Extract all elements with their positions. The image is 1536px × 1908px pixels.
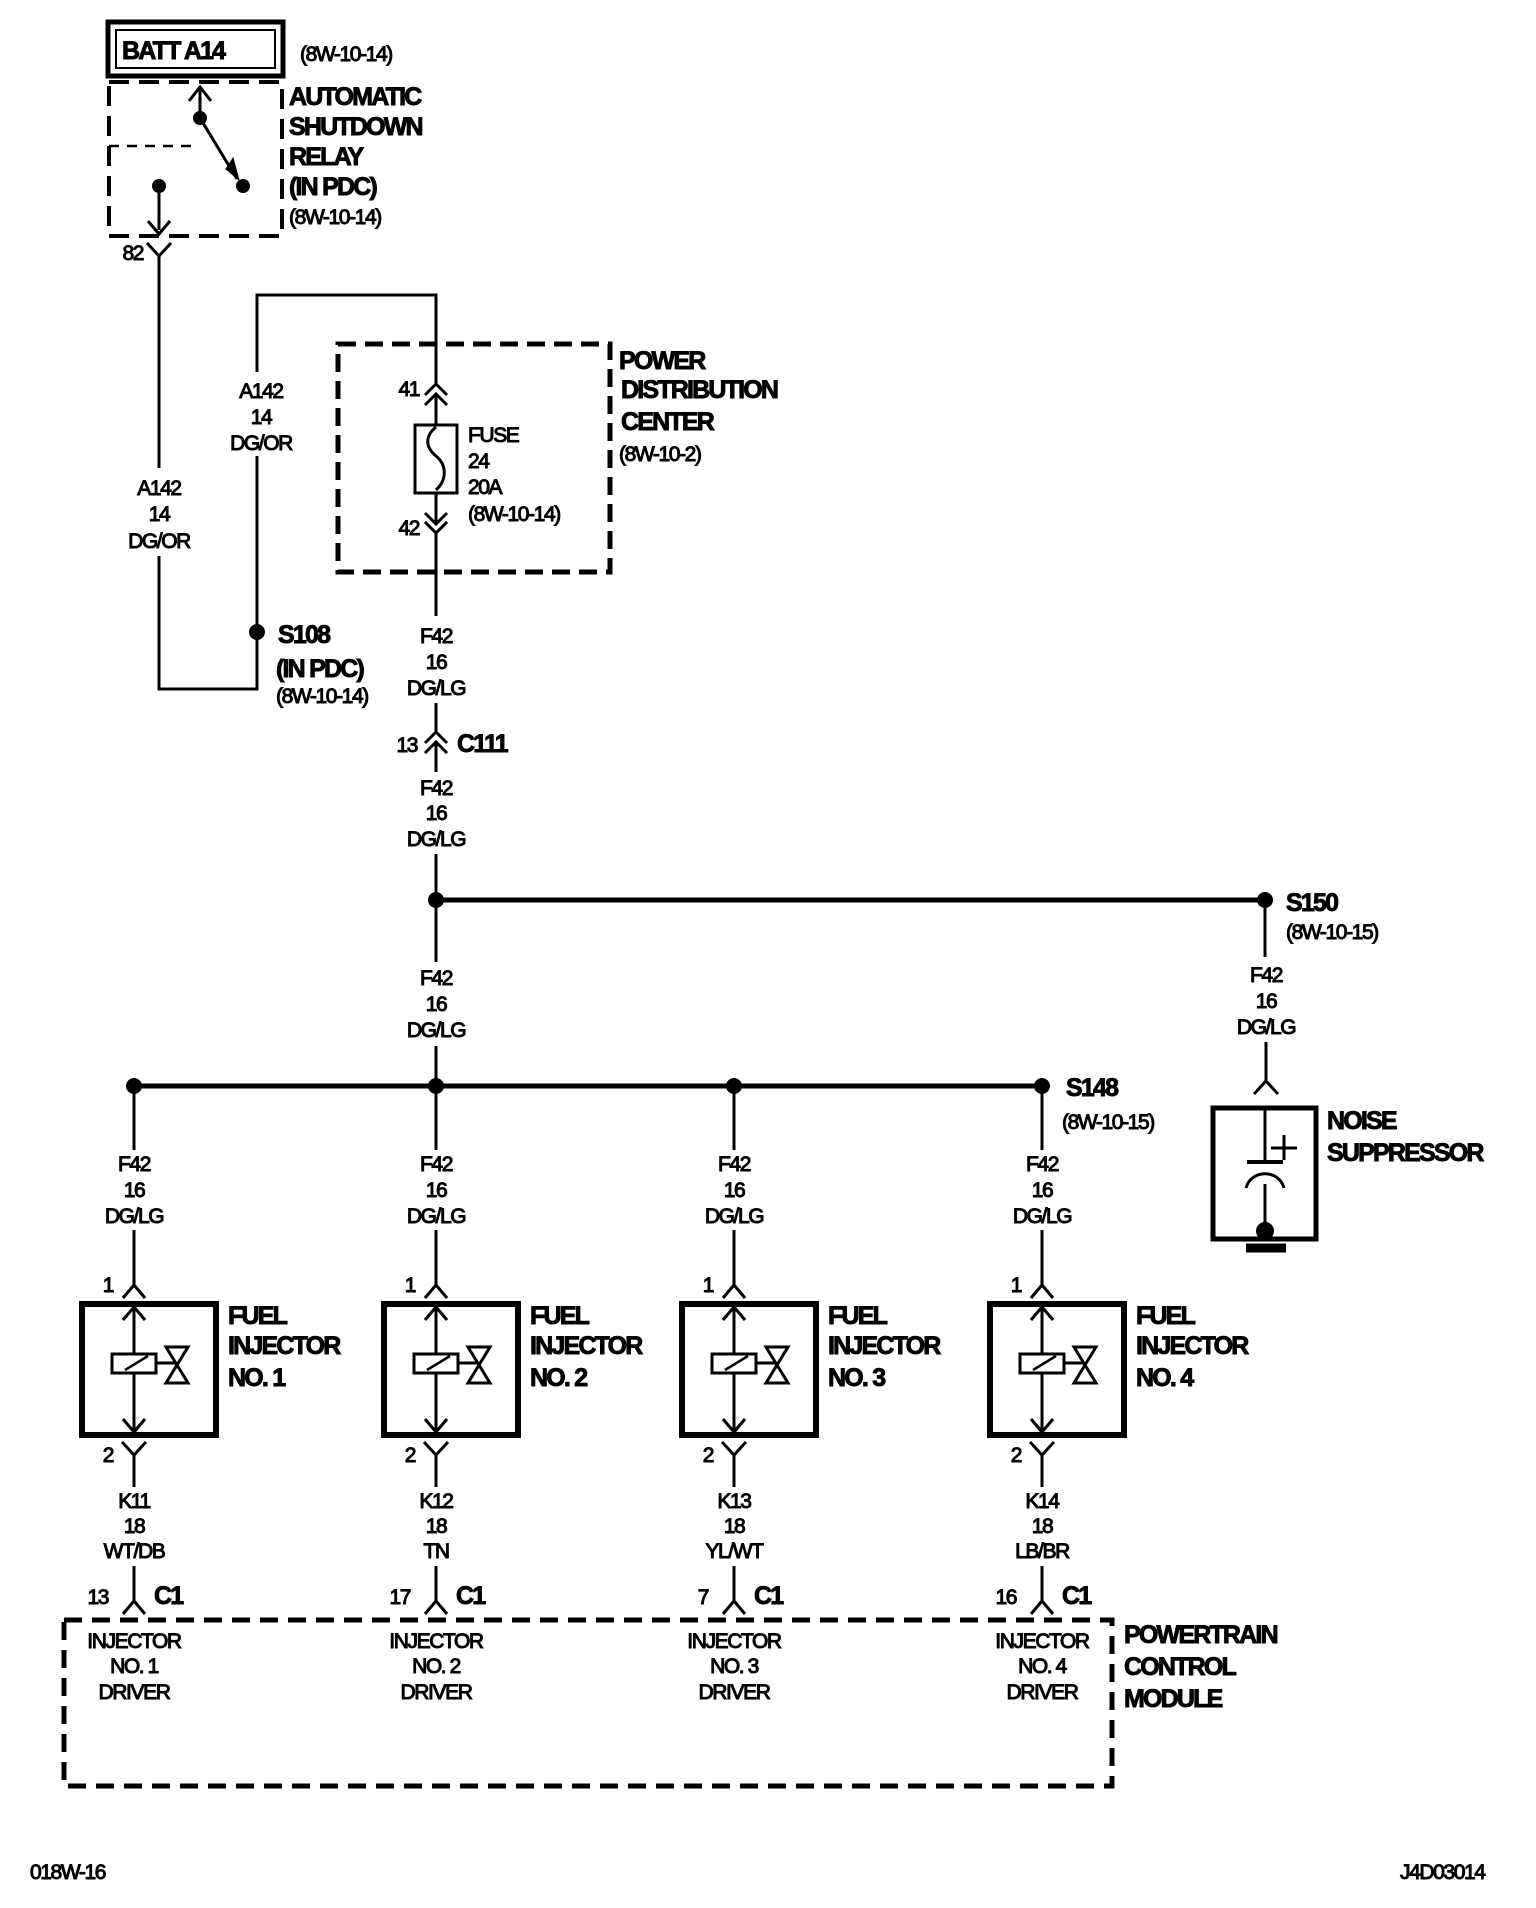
svg-text:DG/LG: DG/LG [1237,1016,1295,1039]
svg-text:1: 1 [703,1274,714,1297]
svg-text:INJECTOR: INJECTOR [828,1332,941,1360]
svg-text:C1: C1 [1062,1582,1092,1610]
svg-text:2: 2 [405,1444,416,1467]
svg-text:S148: S148 [1066,1074,1119,1102]
svg-text:NOISE: NOISE [1327,1107,1397,1135]
svg-text:2: 2 [1011,1444,1022,1467]
svg-text:2: 2 [703,1444,714,1467]
svg-text:DRIVER: DRIVER [99,1681,171,1704]
svg-text:NO. 4: NO. 4 [1018,1655,1068,1678]
svg-text:24: 24 [468,450,490,473]
svg-text:TN: TN [423,1540,448,1563]
svg-text:NO. 3: NO. 3 [828,1364,885,1392]
svg-text:DG/LG: DG/LG [407,828,465,851]
svg-text:(IN PDC): (IN PDC) [289,173,377,201]
svg-text:DG/LG: DG/LG [407,1205,465,1228]
svg-text:CONTROL: CONTROL [1124,1653,1237,1681]
svg-text:F42: F42 [118,1153,151,1176]
svg-text:16: 16 [426,802,447,825]
svg-text:NO. 2: NO. 2 [530,1364,587,1392]
svg-text:A142: A142 [239,380,283,403]
svg-text:YL/WT: YL/WT [705,1540,764,1563]
svg-text:INJECTOR: INJECTOR [228,1332,341,1360]
svg-text:INJECTOR: INJECTOR [389,1630,484,1653]
svg-text:018W-16: 018W-16 [30,1861,106,1884]
svg-text:41: 41 [398,378,419,401]
svg-text:F42: F42 [420,777,453,800]
svg-text:FUSE: FUSE [468,424,520,447]
svg-text:2: 2 [103,1444,114,1467]
svg-text:DG/LG: DG/LG [1013,1205,1071,1228]
svg-text:DG/LG: DG/LG [105,1205,163,1228]
svg-text:13: 13 [87,1586,108,1609]
svg-text:SHUTDOWN: SHUTDOWN [289,113,423,141]
svg-text:16: 16 [426,1179,447,1202]
svg-text:DRIVER: DRIVER [1007,1681,1079,1704]
svg-text:16: 16 [1032,1179,1053,1202]
svg-text:FUEL: FUEL [828,1302,888,1330]
svg-text:NO. 3: NO. 3 [710,1655,759,1678]
svg-text:C1: C1 [154,1582,184,1610]
svg-text:INJECTOR: INJECTOR [530,1332,643,1360]
svg-text:DG/LG: DG/LG [407,677,465,700]
svg-text:1: 1 [405,1274,416,1297]
svg-text:BATT A14: BATT A14 [122,37,226,65]
svg-text:F42: F42 [420,1153,453,1176]
svg-text:K13: K13 [717,1490,751,1513]
svg-text:F42: F42 [420,625,453,648]
svg-text:14: 14 [149,503,171,526]
svg-text:C1: C1 [754,1582,784,1610]
svg-text:NO. 1: NO. 1 [228,1364,286,1392]
svg-text:16: 16 [995,1586,1016,1609]
svg-text:A142: A142 [137,477,181,500]
svg-text:NO. 2: NO. 2 [412,1655,461,1678]
svg-text:7: 7 [698,1586,709,1609]
svg-text:INJECTOR: INJECTOR [87,1630,182,1653]
svg-text:DG/LG: DG/LG [407,1019,465,1042]
svg-text:SUPPRESSOR: SUPPRESSOR [1327,1139,1484,1167]
svg-text:NO. 4: NO. 4 [1136,1364,1194,1392]
svg-text:18: 18 [426,1515,447,1538]
svg-text:J4D03014: J4D03014 [1400,1861,1486,1884]
svg-text:18: 18 [1032,1515,1053,1538]
svg-text:NO. 1: NO. 1 [110,1655,159,1678]
svg-text:POWERTRAIN: POWERTRAIN [1124,1621,1278,1649]
svg-text:17: 17 [389,1586,410,1609]
svg-text:AUTOMATIC: AUTOMATIC [289,83,422,111]
svg-text:FUEL: FUEL [530,1302,590,1330]
svg-text:16: 16 [426,993,447,1016]
svg-text:C1: C1 [456,1582,486,1610]
svg-text:F42: F42 [1026,1153,1059,1176]
svg-text:WT/DB: WT/DB [104,1540,165,1563]
svg-text:RELAY: RELAY [289,143,365,171]
svg-text:F42: F42 [718,1153,751,1176]
svg-text:K11: K11 [118,1490,150,1513]
svg-text:20A: 20A [468,476,503,499]
svg-text:DG/LG: DG/LG [705,1205,763,1228]
svg-text:DISTRIBUTION: DISTRIBUTION [621,376,778,404]
svg-text:INJECTOR: INJECTOR [995,1630,1090,1653]
svg-text:16: 16 [124,1179,145,1202]
svg-text:CENTER: CENTER [621,408,715,436]
svg-text:13: 13 [396,734,417,757]
svg-text:DG/OR: DG/OR [128,530,191,553]
svg-text:S150: S150 [1286,889,1338,917]
svg-text:(8W-10-15): (8W-10-15) [1286,921,1378,944]
svg-text:(8W-10-15): (8W-10-15) [1062,1111,1154,1134]
svg-text:INJECTOR: INJECTOR [687,1630,782,1653]
svg-text:INJECTOR: INJECTOR [1136,1332,1249,1360]
svg-text:(8W-10-14): (8W-10-14) [300,43,392,66]
svg-text:C111: C111 [457,730,509,758]
svg-text:42: 42 [398,517,419,540]
svg-text:K14: K14 [1025,1490,1060,1513]
svg-text:S108: S108 [278,621,331,649]
svg-text:1: 1 [1011,1274,1022,1297]
svg-text:DRIVER: DRIVER [699,1681,771,1704]
svg-text:16: 16 [1256,990,1277,1013]
svg-text:18: 18 [724,1515,745,1538]
svg-text:(8W-10-2): (8W-10-2) [619,443,701,466]
svg-text:POWER: POWER [619,347,706,375]
svg-text:(8W-10-14): (8W-10-14) [468,503,560,526]
svg-text:(8W-10-14): (8W-10-14) [276,685,368,708]
svg-text:18: 18 [124,1515,145,1538]
svg-text:FUEL: FUEL [228,1302,288,1330]
svg-text:DG/OR: DG/OR [230,432,293,455]
svg-text:82: 82 [122,242,143,265]
svg-text:(IN PDC): (IN PDC) [276,655,364,683]
svg-text:FUEL: FUEL [1136,1302,1196,1330]
svg-text:14: 14 [251,406,273,429]
svg-text:DRIVER: DRIVER [401,1681,473,1704]
svg-text:MODULE: MODULE [1124,1685,1223,1713]
svg-text:F42: F42 [420,967,453,990]
svg-text:F42: F42 [1250,964,1283,987]
svg-text:(8W-10-14): (8W-10-14) [289,206,381,229]
svg-text:LB/BR: LB/BR [1015,1540,1070,1563]
svg-text:16: 16 [724,1179,745,1202]
svg-text:1: 1 [103,1274,114,1297]
svg-text:16: 16 [426,651,447,674]
svg-text:K12: K12 [419,1490,453,1513]
